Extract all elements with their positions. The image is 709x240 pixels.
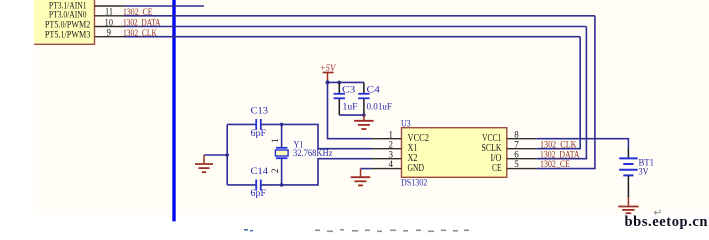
pin 12 stub (95, 5, 125, 7)
svg-text:C3: C3 (342, 85, 356, 95)
svg-text:1uF: 1uF (343, 102, 358, 112)
svg-text:10: 10 (105, 17, 114, 27)
caption glyph tops (clipped at bottom) (244, 229, 469, 232)
wire crystal left vertical (226, 124, 228, 184)
node +5V junction (326, 80, 330, 84)
wire VCC1 to battery (537, 139, 629, 149)
wire 1302_CE vertical (537, 16, 595, 169)
wire 1302_DATA vertical (537, 27, 587, 159)
svg-text:1302_CLK: 1302_CLK (540, 140, 577, 150)
svg-text:C14: C14 (251, 167, 269, 177)
pin 8 stub (507, 138, 537, 140)
wire C14 right to X2 corner (261, 159, 372, 185)
pin 7 stub (507, 148, 537, 150)
svg-text:bbs.eetop.cn: bbs.eetop.cn (625, 214, 708, 230)
bus line (172, 0, 175, 221)
wire 1302_DATA horizontal (125, 26, 587, 28)
wire crystal bottom row (227, 184, 256, 186)
op-amp U3 DS1302 body (402, 128, 507, 178)
wire stub net (pin12) (125, 5, 205, 7)
svg-text:3: 3 (389, 149, 394, 159)
battery BT1 (619, 149, 637, 197)
svg-text:DS1302: DS1302 (401, 177, 427, 188)
crystal Y1 (275, 124, 288, 184)
capacitor C13 (256, 119, 261, 130)
svg-text:1: 1 (389, 129, 394, 139)
wire +5V to VCC2 pin1 (328, 82, 372, 138)
wire 1302_CLK vertical (537, 37, 580, 149)
ground C3 C4 (354, 115, 374, 129)
capacitor C14 (256, 180, 261, 191)
svg-text:9: 9 (107, 28, 112, 38)
wire +5V to C3 C4 tops (328, 81, 364, 83)
node ground tee junction (225, 153, 229, 157)
svg-text:32.768KHz: 32.768KHz (293, 149, 333, 159)
svg-text:1302_DATA: 1302_DATA (540, 150, 580, 160)
svg-text:C4: C4 (367, 85, 381, 95)
pin 4 stub (372, 168, 402, 170)
svg-text:2: 2 (389, 139, 394, 149)
pin 11 stub (95, 15, 125, 17)
svg-text:C13: C13 (251, 107, 269, 117)
svg-text:4: 4 (389, 159, 394, 169)
node crystal bottom junction (280, 183, 284, 187)
svg-text:6: 6 (514, 149, 519, 159)
pin 5 stub (507, 168, 537, 170)
svg-text:0.01uF: 0.01uF (367, 102, 393, 112)
ground pin4 (351, 169, 371, 186)
capacitor C4 (358, 82, 369, 115)
wire C3 C4 bottoms (339, 114, 364, 116)
node C4 bottom junction (362, 113, 366, 117)
svg-text:PT5.1/PWM3: PT5.1/PWM3 (45, 30, 91, 40)
power +5V symbol (320, 64, 337, 83)
svg-text:PT5.0/PWM2: PT5.0/PWM2 (45, 20, 91, 30)
pin 3 stub (372, 158, 402, 160)
svg-text:3V: 3V (639, 166, 649, 176)
svg-text:1302_CE: 1302_CE (540, 160, 570, 170)
ground crystal left (195, 155, 213, 172)
svg-text:1302_CE: 1302_CE (123, 8, 153, 18)
svg-text:6pF: 6pF (251, 129, 267, 139)
svg-text:1302_DATA: 1302_DATA (123, 19, 161, 29)
svg-text:U3: U3 (401, 118, 411, 129)
svg-text:5: 5 (514, 159, 519, 169)
wire to left ground (204, 154, 227, 156)
svg-text:1302_CLK: 1302_CLK (123, 29, 157, 39)
node crystal top junction (280, 123, 284, 127)
MCU U? body (clipped at top/left) (34, 0, 95, 44)
svg-text:CE: CE (492, 163, 502, 174)
pin 6 stub (507, 158, 537, 160)
wire 1302_CE horizontal (125, 15, 595, 17)
ground battery (618, 197, 638, 213)
svg-text:8: 8 (514, 129, 519, 139)
svg-text:6pF: 6pF (251, 189, 267, 199)
capacitor C3 (334, 82, 345, 115)
svg-text:1: 1 (270, 139, 280, 144)
svg-text:GND: GND (408, 163, 425, 174)
pin 1 stub (372, 138, 402, 140)
svg-text:PT3.0/AIN0: PT3.0/AIN0 (49, 9, 87, 19)
svg-text:7: 7 (514, 139, 519, 149)
pin 9 stub (95, 36, 125, 38)
node C3 top junction (338, 81, 342, 85)
wire C13 right to X1 corner (261, 124, 372, 148)
svg-text:11: 11 (105, 7, 113, 17)
wire crystal top row (227, 123, 256, 125)
wire GND pin4 (361, 168, 372, 170)
pin 10 stub (95, 26, 125, 28)
svg-text:2: 2 (270, 169, 280, 174)
pin 2 stub (372, 148, 402, 150)
wire 1302_CLK horizontal (125, 36, 581, 38)
